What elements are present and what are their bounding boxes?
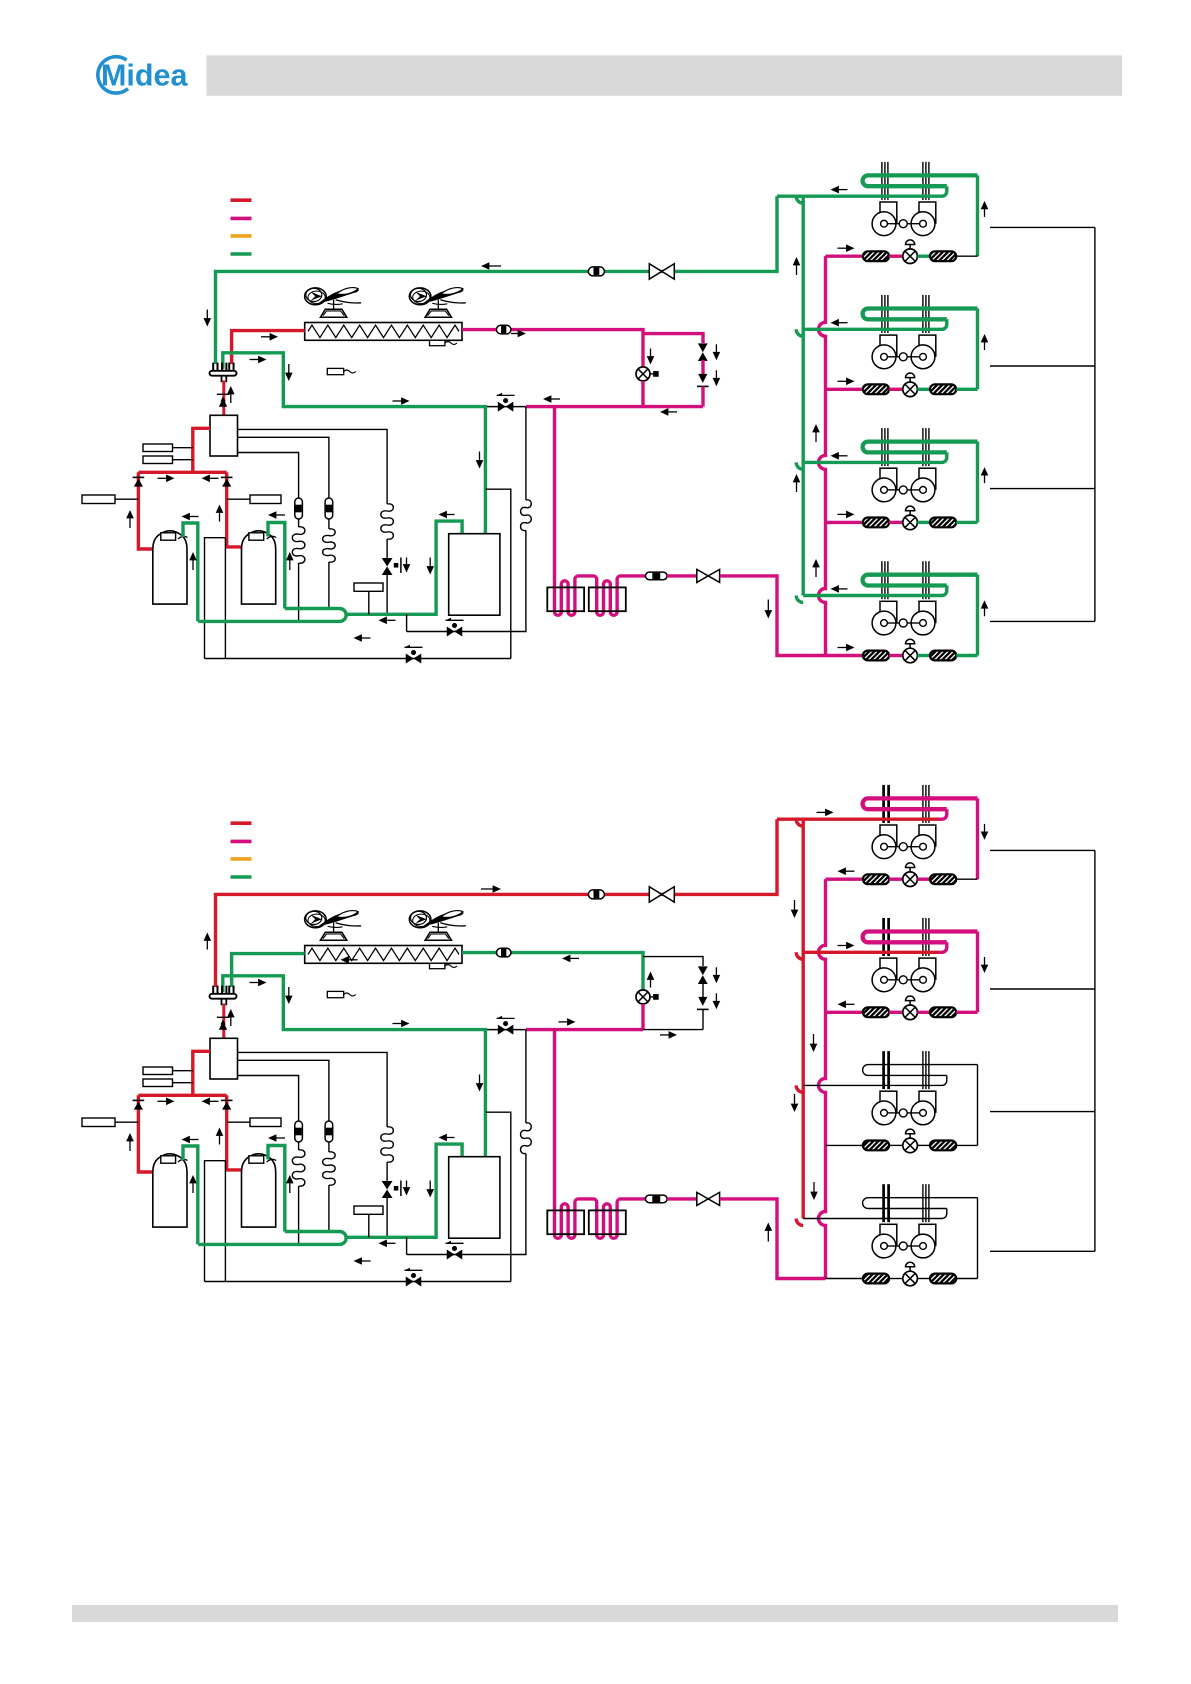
- check valve branch pipe lower: [701, 386, 704, 406]
- outdoor fan 1: [320, 932, 346, 940]
- legend line magenta: high pressure liquid: [231, 217, 252, 221]
- pressure sensor right: [250, 495, 281, 504]
- indoor unit 4 strainer 2: [930, 651, 956, 661]
- indoor unit 3 pipe from EEV: [917, 521, 930, 524]
- legend line green: low pressure gas: [231, 252, 252, 256]
- legend line green: low pressure gas: [231, 875, 252, 879]
- indoor unit 1 heat-exchanger coil: [863, 798, 978, 809]
- liquid line pipe to stop valve: [667, 1197, 697, 1200]
- indoor unit 2 fans: [880, 958, 897, 979]
- discharge service tick: [217, 392, 231, 394]
- drain bus: [1094, 850, 1096, 1251]
- outdoor fan 1: [320, 309, 346, 317]
- compressor 1 discharge leg: [138, 1095, 152, 1172]
- liquid pipe lower run: [526, 405, 703, 408]
- check valve compressor 1: [133, 476, 145, 478]
- oil separator: [210, 1038, 238, 1079]
- double check valve: [698, 966, 708, 975]
- indoor unit 2 strainer 1: [863, 1007, 889, 1017]
- flow arrow at HX inlet: [341, 956, 349, 964]
- indoor unit 2 strainer 1: [863, 384, 889, 394]
- HX outlet filter: [496, 325, 511, 334]
- indoor unit 4 pipe from EEV: [917, 654, 930, 657]
- indoor unit 4 fans: [880, 1224, 897, 1245]
- suction pipe compressor 2: [268, 1146, 285, 1232]
- hot-gas bypass line with capillary and EEV: [238, 429, 388, 504]
- gas trunk tee fillet unit 1: [796, 196, 803, 203]
- compressor 2 discharge leg: [227, 472, 242, 547]
- HX outlet arrow: [518, 330, 526, 338]
- check valve compressor 2: [221, 476, 233, 478]
- indoor unit 1 pipe to EEV: [889, 255, 903, 258]
- indoor unit 3 liquid pipe: [826, 1144, 863, 1146]
- subcooler liquid line: [555, 1030, 646, 1239]
- indoor unit 2 drain line: [990, 988, 1095, 990]
- gas trunk tee fillet unit 2: [796, 952, 803, 959]
- accumulator: [449, 534, 500, 616]
- accumulator balance pipe top: [486, 489, 511, 658]
- outdoor fan 2: [425, 309, 451, 317]
- gas trunk tee fillet unit 1: [796, 819, 803, 826]
- indoor unit 4 pipe to EEV: [889, 654, 903, 657]
- check valve branch pipe upper: [643, 334, 703, 343]
- indoor unit 3 electronic expansion valve: [903, 1138, 918, 1153]
- oil equalisation frame: [205, 538, 226, 659]
- discharge service tick: [217, 1015, 231, 1017]
- main electronic expansion valve: [636, 990, 650, 1004]
- legend line orange: two-phase: [231, 234, 252, 238]
- liquid line arrow: [765, 1223, 773, 1231]
- defrost temperature sensor: [430, 963, 445, 968]
- indoor unit 3 coil fin headers: [881, 428, 883, 466]
- check valve branch pipe upper: [643, 957, 703, 966]
- flow arrow at HX inlet: [270, 333, 278, 341]
- indoor unit 3 coil outlet pipe: [976, 442, 979, 523]
- indoor unit 2 liquid pipe: [826, 388, 863, 391]
- gas trunk tee fillet unit 3: [796, 462, 803, 469]
- ambient temperature sensor: [327, 368, 343, 374]
- footer bar: [72, 1605, 1118, 1622]
- indoor unit 2 heat-exchanger coil: [863, 309, 978, 320]
- liquid line filter: [646, 1195, 668, 1203]
- indoor unit 4 flow arrows: [846, 644, 854, 652]
- indoor unit 3 drain line: [990, 1111, 1095, 1113]
- indoor unit 1 return pipe: [777, 186, 947, 196]
- suction pipe compressor 1: [183, 1146, 198, 1244]
- subcooler plates: [547, 1210, 584, 1234]
- indoor unit 2 drain line: [990, 365, 1095, 367]
- indoor unit 2 fans: [880, 335, 897, 356]
- indoor unit 1 strainer 2: [930, 874, 956, 884]
- indoor unit 3 pipe to EEV: [889, 1144, 903, 1146]
- indoor unit 4 pipe to EEV: [889, 1278, 903, 1280]
- discharge arrows: [220, 397, 225, 402]
- service line A: [406, 1237, 408, 1254]
- indoor unit 3 strainer 1: [863, 1141, 889, 1151]
- oil return capillary 2: [238, 1060, 329, 1121]
- indoor unit 3 strainer 2: [930, 1141, 956, 1151]
- gas trunk tee fillet unit 4: [796, 1219, 803, 1226]
- suction pipe 4-way valve to accumulator: [223, 976, 486, 1157]
- indoor unit 4 fans: [880, 601, 897, 622]
- gas pipe arrow near left: [204, 318, 212, 326]
- oil balance pipe with service valve: [485, 1029, 525, 1031]
- outdoor heat exchanger: [305, 323, 462, 341]
- oil return pipe with coil: [525, 407, 527, 500]
- indoor unit 1 liquid pipe: [826, 878, 863, 881]
- service line B: [205, 1281, 511, 1283]
- indoor unit 4 connector pipe: [956, 1278, 977, 1280]
- indoor unit 4 strainer 1: [863, 651, 889, 661]
- indoor unit 2 coil fin headers: [882, 918, 885, 956]
- check valve branch pipe middle: [702, 983, 704, 997]
- accumulator balance pipe top: [486, 1112, 511, 1281]
- discharge manifold: [138, 1094, 226, 1097]
- liquid line pipe to stop valve: [667, 574, 697, 577]
- indoor unit 2 return pipe: [803, 319, 947, 329]
- pressure switches: [143, 444, 173, 452]
- indoor unit 3 flow arrows: [846, 511, 854, 519]
- pressure switches: [143, 1067, 173, 1075]
- manifold arrows: [166, 475, 174, 483]
- suction pipe from accumulator: [347, 521, 462, 614]
- indoor unit 2 coil outlet pipe: [976, 309, 979, 390]
- check valve compressor 1: [133, 1099, 145, 1101]
- outdoor heat exchanger: [305, 946, 462, 964]
- indoor unit 4 heat-exchanger coil: [863, 1198, 978, 1209]
- oil separator: [210, 415, 238, 456]
- indoor unit 2 connector pipe: [956, 388, 977, 391]
- compressor 1 discharge leg: [138, 472, 152, 549]
- indoor unit 2 strainer 2: [930, 384, 956, 394]
- legend line red: high pressure gas: [231, 821, 252, 825]
- indoor unit 3 fans: [880, 468, 897, 489]
- indoor unit 1 liquid pipe: [826, 255, 863, 258]
- indoor unit 3 electronic expansion valve: [903, 515, 918, 530]
- indoor unit 3 pipe from EEV: [917, 1144, 930, 1146]
- discharge arrows: [220, 1020, 225, 1025]
- suction arrows: [182, 513, 190, 521]
- suction header with U bend: [198, 1232, 346, 1245]
- check valve arrows: [713, 352, 721, 360]
- service line A: [406, 614, 408, 631]
- single check valve with seat: [698, 997, 707, 1006]
- gas trunk tee fillet unit 4: [796, 596, 803, 603]
- indoor unit 1 flow arrows: [838, 867, 846, 875]
- single check valve with seat: [698, 374, 707, 383]
- EEV inlet arrow: [647, 972, 655, 980]
- sensor arrows: [126, 510, 134, 518]
- manifold arrows: [166, 1098, 174, 1106]
- suction pipe arrows: [258, 356, 266, 364]
- pipe 4-way valve to heat exchanger: [232, 331, 305, 364]
- check valve branch pipe lower: [702, 1009, 704, 1029]
- indoor unit 2 liquid pipe: [826, 1011, 863, 1014]
- drain bus: [1094, 227, 1096, 621]
- compressor 2: [242, 531, 276, 604]
- defrost temperature sensor: [430, 340, 445, 345]
- liquid trunk arrows: [810, 1044, 818, 1052]
- HX outlet filter: [496, 948, 511, 957]
- legend line red: high pressure gas: [231, 198, 252, 202]
- indoor unit 1 electronic expansion valve: [903, 249, 918, 264]
- indoor unit 2 pipe to EEV: [889, 1011, 903, 1014]
- check valve compressor 2: [221, 1099, 233, 1101]
- suction pipe compressor 1: [183, 523, 198, 621]
- legend line orange: two-phase: [231, 857, 252, 861]
- discharge pipe into 4-way valve: [222, 1004, 225, 1039]
- heat exchanger outlet pipe: [462, 953, 643, 990]
- oil return capillary 1: [238, 1076, 299, 1122]
- indoor unit 3 connector pipe: [956, 521, 977, 524]
- indoor unit 4 return pipe: [803, 1209, 947, 1219]
- main gas pipe (top run): [216, 196, 778, 364]
- indoor unit 2 coil fin headers: [881, 295, 883, 333]
- indoor unit 3 coil fin headers: [882, 1051, 885, 1089]
- indoor unit 1 fans: [880, 202, 897, 223]
- discharge pipe into 4-way valve: [222, 381, 225, 416]
- check valve branch pipe middle: [701, 360, 704, 374]
- Midea logo swoosh: [98, 57, 128, 93]
- compressor 1: [153, 531, 187, 604]
- indoor unit 4 strainer 1: [863, 1274, 889, 1284]
- suction arrows 2: [439, 511, 447, 519]
- liquid trunk to indoor units: [819, 879, 826, 1278]
- indoor unit 2 heat-exchanger coil: [863, 932, 978, 943]
- gas pipe flow arrow: [493, 885, 501, 893]
- indoor unit 4 electronic expansion valve: [903, 648, 918, 663]
- suction pipe from accumulator: [347, 1144, 462, 1237]
- indoor unit 4 electronic expansion valve: [903, 1271, 918, 1286]
- indoor unit 3 fans: [880, 1091, 897, 1112]
- sensor arrows: [126, 1133, 134, 1141]
- main gas pipe (top run): [216, 819, 778, 987]
- compressor 2: [242, 1154, 276, 1227]
- indoor unit 1 strainer 2: [930, 251, 956, 261]
- indoor unit 4 strainer 2: [930, 1274, 956, 1284]
- indoor unit 4 liquid pipe: [826, 654, 863, 657]
- indoor unit 2 flow arrows: [846, 378, 854, 386]
- gas pipe stop valve: [649, 887, 662, 902]
- heat exchanger outlet pipe: [462, 330, 643, 367]
- hot-gas bypass line with capillary and EEV: [238, 1052, 388, 1127]
- indoor unit 2 electronic expansion valve: [903, 382, 918, 397]
- liquid pipe lower arrow: [660, 408, 668, 416]
- HX outlet arrow: [562, 955, 570, 963]
- gas trunk to indoor units: [802, 196, 805, 595]
- oil return pipe with coil: [525, 1030, 527, 1123]
- oil return capillary 1: [238, 453, 299, 499]
- indoor unit 2 pipe from EEV: [917, 1011, 930, 1014]
- indoor unit 4 return pipe: [803, 586, 947, 596]
- subcooler liquid line: [555, 407, 646, 616]
- pipe below main EEV: [641, 1004, 644, 1030]
- EEV inlet arrow: [647, 356, 655, 364]
- indoor unit 1 fans: [880, 825, 897, 846]
- indoor unit 2 connector pipe: [956, 1011, 977, 1014]
- indoor unit 3 return pipe: [803, 1075, 947, 1085]
- indoor unit 4 coil outlet pipe: [977, 1198, 979, 1279]
- indoor unit 1 drain line: [990, 226, 1095, 228]
- pressure sensor left: [82, 1118, 115, 1127]
- compressor 1: [153, 1154, 187, 1227]
- gas trunk arrows: [791, 910, 799, 918]
- suction arrows 2: [439, 1134, 447, 1142]
- liquid line arrow: [765, 610, 773, 618]
- indoor unit 4 connector pipe: [956, 654, 977, 657]
- indoor unit 2 coil outlet pipe: [976, 932, 979, 1013]
- pressure sensor left: [82, 495, 115, 504]
- indoor unit 1 heat-exchanger coil: [863, 175, 978, 186]
- indoor unit 2 pipe to EEV: [889, 388, 903, 391]
- liquid trunk arrows: [812, 424, 820, 432]
- indoor unit 1 pipe from EEV: [917, 878, 930, 881]
- arrow above liquid line: [543, 395, 551, 403]
- indoor unit 3 strainer 2: [930, 518, 956, 528]
- indoor unit 3 return pipe: [803, 452, 947, 462]
- legend line magenta: high pressure liquid: [231, 840, 252, 844]
- gas trunk tee fillet unit 3: [796, 1085, 803, 1092]
- liquid pipe lower arrow: [669, 1031, 677, 1039]
- indoor unit 1 coil fin headers: [881, 162, 883, 200]
- liquid line filter: [646, 572, 668, 580]
- ambient temperature sensor: [327, 991, 343, 997]
- indoor unit 1 flow arrows: [846, 244, 854, 252]
- discharge pipe oil separator to compressors: [193, 428, 210, 472]
- indoor unit 1 coil outlet pipe: [976, 798, 979, 879]
- indoor unit 1 connector pipe: [956, 878, 977, 880]
- indoor unit 3 pipe to EEV: [889, 521, 903, 524]
- indoor unit 3 heat-exchanger coil: [863, 1065, 978, 1076]
- gas trunk tee fillet unit 2: [796, 329, 803, 336]
- suction pipe 4-way valve to accumulator: [223, 353, 486, 534]
- indoor unit 1 return pipe: [777, 818, 938, 821]
- gas pipe stop valve: [649, 264, 662, 279]
- main electronic expansion valve: [636, 367, 650, 381]
- indoor unit 2 return pipe: [803, 951, 938, 954]
- indoor unit 1 connector pipe: [956, 255, 977, 257]
- service line B: [205, 658, 511, 660]
- double check valve: [698, 343, 708, 352]
- oil return capillary 2: [238, 437, 329, 498]
- outdoor fan 2: [425, 932, 451, 940]
- discharge manifold: [138, 471, 226, 474]
- indoor unit 2 pipe from EEV: [917, 388, 930, 391]
- oil balance pipe with service valve: [485, 406, 525, 408]
- 4-way valve: [212, 986, 214, 994]
- gas pipe arrow near left: [204, 933, 212, 941]
- pipe 4-way valve to heat exchanger: [232, 954, 305, 987]
- indoor unit 1 strainer 1: [863, 874, 889, 884]
- indoor unit 1 electronic expansion valve: [903, 872, 918, 887]
- 4-way valve: [212, 363, 214, 371]
- indoor unit 3 heat-exchanger coil: [863, 442, 978, 453]
- indoor unit 4 liquid pipe: [826, 1278, 863, 1280]
- suction arrows: [182, 1136, 190, 1144]
- liquid pipe lower run: [526, 1028, 643, 1031]
- header bar: [207, 55, 1123, 95]
- indoor unit 2 strainer 2: [930, 1007, 956, 1017]
- indoor unit 4 coil fin headers: [881, 561, 883, 599]
- indoor unit 2 flow arrows: [838, 1001, 846, 1009]
- gas pipe flow arrow: [481, 262, 489, 270]
- suction pipe arrows: [258, 979, 266, 987]
- indoor unit 4 pipe from EEV: [917, 1278, 930, 1280]
- indoor unit 3 strainer 1: [863, 518, 889, 528]
- arrow above liquid line: [567, 1018, 575, 1026]
- indoor unit 3 connector pipe: [956, 1144, 977, 1146]
- gas trunk to indoor units: [802, 819, 805, 1218]
- indoor unit 1 coil fin headers: [882, 785, 885, 823]
- gas pipe filter: [588, 890, 604, 899]
- indoor unit 4 coil fin headers: [882, 1184, 885, 1222]
- svg-text:Midea: Midea: [101, 59, 188, 93]
- indoor unit 4 heat-exchanger coil: [863, 575, 978, 586]
- indoor unit 1 strainer 1: [863, 251, 889, 261]
- suction sensor: [354, 1206, 383, 1214]
- indoor unit 1 coil outlet pipe: [976, 175, 979, 256]
- suction header with U bend: [198, 609, 346, 622]
- indoor unit 4 drain line: [990, 1250, 1095, 1252]
- suction pipe compressor 2: [268, 523, 285, 609]
- indoor unit 1 pipe to EEV: [889, 878, 903, 881]
- liquid stop valve: [697, 569, 708, 582]
- oil equalisation frame: [205, 1161, 226, 1282]
- gas pipe filter: [588, 267, 604, 276]
- indoor unit 1 pipe from EEV: [917, 255, 930, 258]
- indoor unit 3 coil outlet pipe: [977, 1065, 979, 1146]
- check valve arrows: [713, 975, 721, 983]
- liquid line to units: [720, 1199, 826, 1279]
- indoor unit 3 liquid pipe: [826, 521, 863, 524]
- pipe below main EEV: [641, 381, 644, 407]
- subcooler plates: [547, 587, 584, 611]
- indoor unit 1 drain line: [990, 849, 1095, 851]
- liquid line to units: [720, 576, 826, 656]
- compressor 2 discharge leg: [227, 1095, 242, 1170]
- discharge pipe oil separator to compressors: [193, 1051, 210, 1095]
- gas trunk arrows: [793, 257, 801, 265]
- liquid stop valve: [697, 1192, 708, 1205]
- indoor unit 4 coil outlet pipe: [976, 575, 979, 656]
- liquid trunk to indoor units: [819, 256, 826, 655]
- indoor unit 3 drain line: [990, 488, 1095, 490]
- indoor unit 2 electronic expansion valve: [903, 1005, 918, 1020]
- pressure sensor right: [250, 1118, 281, 1127]
- suction sensor: [354, 583, 383, 591]
- accumulator: [449, 1157, 500, 1239]
- indoor unit 4 drain line: [990, 620, 1095, 622]
